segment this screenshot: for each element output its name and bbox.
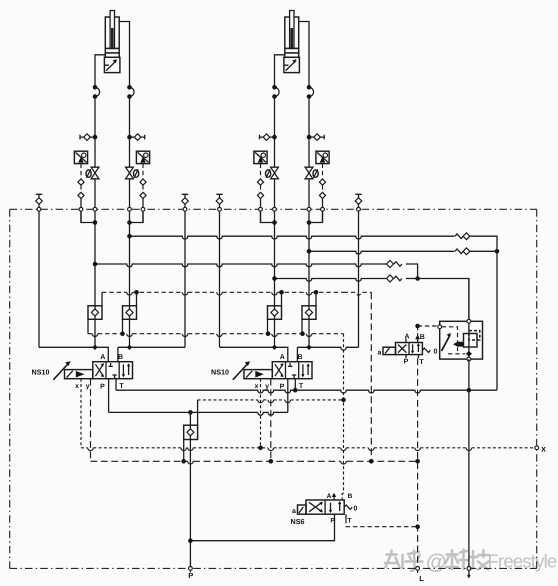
- counterbalance valve under C1: [104, 57, 120, 72]
- junction bus B4 start: [272, 276, 277, 281]
- pilot relief valve assembly V4: [440, 321, 483, 359]
- svg-text:A: A: [404, 334, 409, 341]
- svg-text:x: x: [541, 444, 546, 454]
- junctions on y-pilot bus: [181, 459, 186, 464]
- NS10.2 crossed-arrows position: [275, 364, 283, 376]
- svg-text:B: B: [118, 354, 123, 361]
- junctions on pilot bus y=333.7: [120, 331, 125, 336]
- V4 internal pilot lines: [442, 327, 458, 351]
- pilot line with check diamonds (right) group 1: [142, 164, 144, 179]
- NS10.1 proportional solenoid: [65, 370, 93, 379]
- load check box on line x=95: [88, 306, 102, 320]
- boundary crossing rings top rail: [37, 207, 41, 211]
- check+orifice on B4: [387, 275, 394, 282]
- NS10.1 closed centre: [108, 363, 116, 378]
- svg-text:0: 0: [434, 349, 438, 356]
- orifice mark: [313, 170, 318, 177]
- test coupling M1 on line x=95: [80, 135, 95, 140]
- shut-off valve on line x=129.5: [126, 167, 134, 179]
- junction bus B2 start: [307, 249, 312, 254]
- bus B2 (cyl2 piston side to filter) y=251.3: [309, 251, 455, 254]
- pilot operated check valve (left) group 2: [254, 151, 267, 163]
- svg-text:Freestyle: Freestyle: [488, 551, 557, 572]
- NS10.2 proportional solenoid: [244, 370, 272, 379]
- svg-text:L: L: [419, 574, 424, 583]
- svg-text:y: y: [86, 383, 90, 390]
- V3 B-port pilot riser: [417, 326, 419, 336]
- svg-text:T: T: [419, 359, 424, 366]
- watermark 知乎 @科技Freestyle: [385, 550, 489, 572]
- svg-text:B: B: [297, 354, 302, 361]
- svg-text:A: A: [280, 354, 285, 361]
- NS6 T connection: [345, 514, 347, 519]
- counterbalance valve under C2: [284, 57, 300, 72]
- box corner risers x=309: [315, 292, 317, 306]
- junction x=497: [495, 249, 500, 254]
- rotary joint on line x=129.5: [130, 87, 135, 96]
- wire line x=309: [308, 137, 310, 167]
- load check box on line x=274.5: [268, 306, 282, 320]
- svg-text:NS10: NS10: [32, 368, 50, 377]
- V3 spring: [422, 348, 430, 352]
- svg-text:P: P: [100, 383, 105, 390]
- pump pressure port P: [189, 567, 193, 571]
- dashed pilot bus (check pilots, bottom) y=333.7: [88, 333, 92, 335]
- check+orifice on B3: [387, 261, 394, 268]
- pump line check valve box: [189, 412, 191, 425]
- NS10.1 x pilot wire: [80, 379, 82, 448]
- pilot operated check valve (left) group 1: [74, 151, 87, 163]
- manifold enclosure (dash-dot boundary): [10, 208, 537, 210]
- wire line x=274.5 to check box: [274, 179, 276, 306]
- leak port L: [416, 567, 420, 571]
- V3 crossed arrows: [398, 345, 406, 353]
- cylinder C2: [285, 17, 299, 57]
- bus B1 (cyl1 piston side to filter) y=236.2: [130, 236, 455, 239]
- pilot line with check diamonds (left) group 2: [260, 164, 262, 179]
- dashed row to pump check box y=399.9: [197, 400, 199, 425]
- test coupling M2 on line x=129.5: [130, 135, 145, 140]
- svg-text:x: x: [75, 383, 79, 390]
- y-pilot bus y=461.3: [91, 460, 188, 462]
- directional valve NS6: [306, 500, 344, 514]
- NS10.2 parallel-arrows position: [303, 364, 308, 375]
- NS6 P connection: [190, 514, 334, 541]
- svg-text:A: A: [100, 354, 105, 361]
- junctions on pilot bus y=292.3: [134, 290, 139, 295]
- NS10.1 proportional arrow: [53, 364, 68, 380]
- NS10.1 y pilot drop: [90, 379, 92, 462]
- V4 pilot chamber (dashed): [469, 331, 480, 340]
- svg-text:x: x: [255, 383, 259, 390]
- svg-text:NS6: NS6: [291, 517, 305, 526]
- V3 solenoid: [383, 347, 396, 354]
- pilot operated check valve (right) group 2: [316, 151, 329, 163]
- V3 parallel arrows: [413, 344, 419, 352]
- NS10.2 proportional arrow: [233, 364, 248, 380]
- A/B connection row NS10.2: [220, 347, 288, 361]
- C2 piston-side port line: [299, 22, 309, 88]
- svg-text:T: T: [299, 383, 304, 390]
- wire line x=95 to check box: [94, 179, 96, 306]
- svg-text:P: P: [280, 383, 285, 390]
- V3 port stubs and labels: [405, 339, 407, 343]
- wire line x=129.5: [129, 137, 131, 167]
- filter/orifice symbol on B1: [455, 234, 463, 239]
- cylinder C1 piston rod: [110, 11, 114, 49]
- bus B3 (cyl1 rod side) y=264: [95, 264, 386, 267]
- cylinder C2 piston: [285, 47, 299, 49]
- svg-text:P: P: [404, 359, 409, 366]
- orifice mark: [266, 170, 271, 177]
- C1 rod-side port line: [95, 55, 105, 88]
- pilot operated check valve (right) group 1: [136, 151, 149, 163]
- V4 drain to tank: [468, 359, 470, 568]
- cylinder C1 piston: [105, 47, 119, 49]
- V4 adjustment arrow: [442, 335, 451, 351]
- NS10.2 y pilot drop: [270, 379, 272, 462]
- svg-text:A: A: [327, 493, 332, 500]
- cylinder C2 piston rod: [290, 11, 294, 49]
- svg-text:y: y: [265, 383, 269, 390]
- NS10.1 parallel-arrows position: [123, 364, 128, 375]
- NS10.1 crossed-arrows position: [95, 364, 103, 376]
- shut-off valve on line x=309: [305, 167, 313, 179]
- svg-text:P: P: [188, 571, 193, 580]
- orifice mark: [86, 170, 91, 177]
- svg-text:@: @: [426, 551, 446, 574]
- tank return bus y=390.2: [115, 379, 117, 391]
- x-pilot bus y=447.8: [81, 447, 88, 449]
- capped test coupling column x=358.5: [355, 194, 361, 197]
- pilot line with check diamonds (left) group 1: [80, 164, 82, 179]
- NS6 spring: [344, 505, 352, 509]
- wire line x=309 to check box: [308, 179, 310, 306]
- svg-text:B: B: [348, 493, 353, 500]
- box corner risers x=95: [101, 292, 103, 306]
- C2 rod-side port line: [275, 55, 285, 88]
- junction T2 and relief drain: [293, 388, 298, 393]
- capped test coupling column x=185: [182, 194, 188, 197]
- filter/orifice symbol on B2: [455, 249, 463, 254]
- C1 piston-side port line: [119, 22, 129, 88]
- wire line x=95: [94, 137, 96, 167]
- junction bus B1 start: [127, 234, 132, 239]
- capped test coupling column x=39: [36, 194, 42, 197]
- svg-text:NS10: NS10: [211, 368, 229, 377]
- load check box on line x=129.5: [123, 306, 137, 320]
- load check box on line x=309: [302, 306, 316, 320]
- rotary joint on line x=274.5: [275, 87, 280, 96]
- svg-text:0: 0: [354, 506, 358, 513]
- svg-text:a: a: [292, 508, 296, 515]
- directional valve NS10.2: [272, 362, 312, 379]
- svg-text:a: a: [378, 350, 382, 357]
- junction bus B3 start: [93, 262, 98, 267]
- capped test coupling column x=219.5: [216, 194, 222, 197]
- NS6 parallel arrows: [331, 503, 340, 511]
- wire line x=129.5 to check box: [129, 179, 131, 306]
- test coupling M1 on line x=274.5: [260, 135, 275, 140]
- pressure bus y=412.4: [108, 379, 110, 413]
- bus B4 (cyl2 rod side) y=278.5: [275, 279, 387, 282]
- NS10.2 x pilot drop: [260, 379, 262, 448]
- cylinder C1: [105, 17, 119, 57]
- shut-off valve on line x=95: [91, 167, 99, 179]
- NS6 B stub: [341, 499, 343, 501]
- rotary joint on line x=95: [95, 87, 100, 96]
- pilot line with check diamonds (right) group 2: [322, 164, 324, 179]
- shut-off valve on line x=274.5: [271, 167, 279, 179]
- orifice mark: [134, 170, 139, 177]
- NS6 solenoid: [298, 505, 307, 514]
- wire line x=274.5: [274, 137, 276, 167]
- V3 tank drop (L line): [417, 358, 419, 568]
- svg-text:T: T: [119, 383, 124, 390]
- test coupling M2 on line x=309: [309, 135, 324, 140]
- NS10.2 closed centre: [288, 363, 296, 378]
- NS6 A stub with arrow: [333, 496, 335, 501]
- tank port: [467, 567, 471, 571]
- pilot drop to NS6 B x=343.5: [343, 334, 345, 494]
- svg-text:B: B: [420, 334, 425, 341]
- V4 relief cartridge: [464, 334, 478, 348]
- pilot line dot to relief: [418, 325, 438, 327]
- dashed pilot bus (check pilots, top) y=292.3: [102, 291, 127, 293]
- solenoid valve V3 (vent valve): [396, 343, 423, 355]
- svg-text:T: T: [348, 518, 352, 525]
- pilot jog joins (1): [81, 211, 95, 222]
- directional valve NS10.1: [93, 362, 133, 379]
- pilot jog joins (2): [261, 211, 275, 222]
- NS6 crossed arrows: [309, 502, 322, 512]
- wire filter return drop x=497: [496, 251, 498, 389]
- V4 through line: [468, 279, 470, 322]
- rotary joint on line x=309: [309, 87, 314, 96]
- box corner risers x=274.5: [281, 292, 283, 306]
- A/B connection row NS10.1: [39, 347, 108, 361]
- box corner risers x=129.5: [136, 292, 138, 306]
